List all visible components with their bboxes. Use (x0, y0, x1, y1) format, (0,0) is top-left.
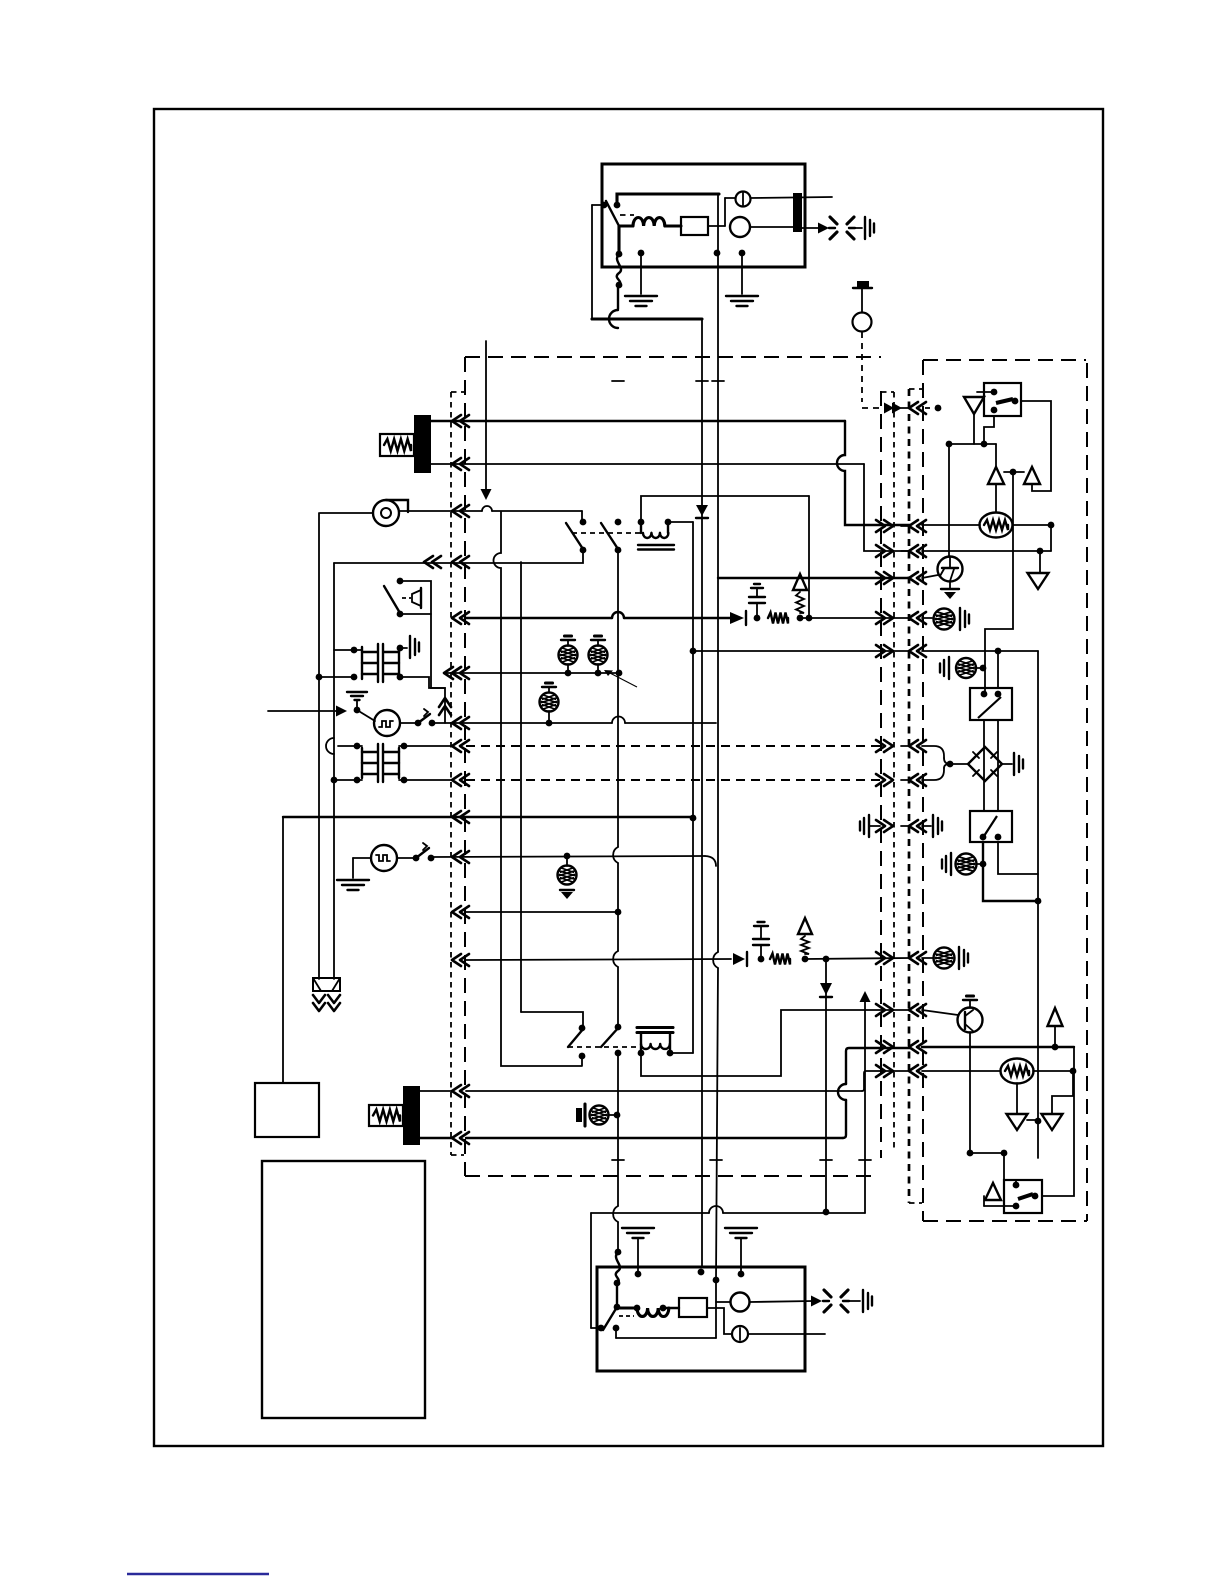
node row673 V2 (616, 670, 623, 677)
spark plug gap top (830, 217, 837, 224)
resistor box top (681, 217, 708, 235)
chevrons row912 (452, 906, 461, 918)
pulse pickup circle O1 (730, 217, 750, 237)
V717 inside box (715, 1280, 717, 1338)
relay R3 drop left (983, 842, 1038, 901)
bulb BR2 (922, 957, 933, 959)
harness dashed box top edge (465, 356, 881, 358)
chevrons row561 (452, 556, 461, 568)
bus wire 592-703 (592, 317, 702, 320)
wire switch feed left (592, 204, 604, 206)
node 805 row959 (802, 956, 809, 963)
riser 864 (864, 464, 910, 551)
controller dashed box bottom edge (923, 1220, 1087, 1222)
bulb BR0 (956, 658, 976, 678)
node 757 (754, 615, 761, 622)
chevrons row959 (452, 954, 461, 966)
wire T1 right (668, 521, 693, 523)
wire gap to ground bottom (849, 1300, 860, 1302)
chevrons row1071 (884, 1065, 893, 1077)
bus V521 (520, 562, 522, 1012)
ground M2 (337, 879, 369, 881)
ground stem G1 (640, 253, 642, 294)
chevrons row856 (452, 851, 461, 863)
wire O1 to plug (750, 226, 793, 228)
resistor row959 (770, 954, 790, 965)
triangle TU6 (985, 1183, 1001, 1200)
wire resistor to meters (708, 225, 725, 227)
battery arrow tips (313, 995, 325, 1003)
resistor block 2 box (369, 1105, 403, 1126)
indicator circle I1 (736, 192, 751, 207)
wire row959 right (805, 958, 910, 959)
top ignition unit box (602, 164, 805, 267)
bus V2 low (617, 1053, 619, 1206)
wire row618 (466, 617, 730, 619)
chevrons row1010 (884, 1004, 893, 1016)
transformer T4 (637, 1026, 673, 1029)
up chevrons x445 (439, 698, 451, 707)
arrow up x865 (864, 1002, 866, 1213)
bus V319 (318, 513, 320, 979)
diode D2 on V826 (820, 983, 832, 995)
cap C1 to ground (756, 603, 758, 618)
relay R1 out (1021, 401, 1051, 491)
relay R3 drop right (998, 842, 1038, 874)
timing connector circle (853, 313, 872, 332)
chevrons row817 (452, 811, 461, 823)
coil L2 (617, 1306, 637, 1309)
connector column fine dash x894 (893, 392, 895, 1150)
chevrons row419 (452, 415, 461, 427)
wire S1 bottom to row561 (334, 550, 583, 563)
bus V717 (717, 194, 719, 952)
bus V1038 (1037, 651, 1039, 1158)
relay R1 box (984, 383, 1021, 416)
chevrons row1138 (452, 1132, 461, 1144)
horn symbol (412, 590, 421, 606)
bulb BL5 (590, 1106, 609, 1125)
timing cap (857, 281, 869, 287)
switch S2 upper (615, 519, 622, 526)
fuse box (313, 978, 340, 991)
triangle TU5 (1024, 467, 1040, 484)
indicator circle I2 (732, 1326, 748, 1342)
controller dashed box left edge (922, 360, 924, 1221)
wire y1213 (591, 1212, 709, 1214)
triangle TU1 (793, 574, 807, 590)
resistor row618 (768, 613, 788, 624)
drop x591 (590, 1213, 592, 1328)
resistor block 2 element (373, 1110, 400, 1122)
riser 845 with hop (837, 421, 910, 525)
triangle TU4 (995, 444, 997, 467)
T2 ground right (409, 636, 411, 658)
wire T4 left loop (641, 1010, 910, 1076)
meter M2 feed (353, 857, 371, 859)
wire row673 (445, 672, 619, 674)
ground link left (868, 815, 870, 837)
drop x1013 (985, 472, 1013, 693)
relay R4 pins (1013, 1182, 1020, 1189)
row408 stub (901, 407, 909, 409)
Q2 emitter drop (969, 1032, 971, 1153)
controller dashed box right edge (1086, 363, 1088, 1221)
spark plug gap bottom (824, 1290, 831, 1297)
wire top box inner (617, 194, 719, 205)
ground BR3 (950, 853, 952, 875)
chevrons row1091 (452, 1085, 461, 1097)
transformer T3 (362, 748, 399, 778)
chevrons row510 (452, 505, 461, 517)
terminal bar 1 (414, 415, 431, 473)
wire feed S3 top (521, 1012, 583, 1027)
TH2 to TD4 (1016, 1083, 1018, 1113)
connector column long dash x881 (880, 391, 882, 1158)
transformer T1 (638, 519, 645, 526)
horn switch (397, 578, 404, 585)
meter M2 (371, 845, 397, 871)
wire bar2 row1138 (420, 1137, 452, 1139)
switch M1 (400, 722, 416, 724)
transistor Q1 (938, 557, 963, 582)
triangle TD4 (1007, 1114, 1028, 1130)
thermistor TH2 (1001, 1059, 1034, 1084)
wire resistor to I2 (707, 1308, 732, 1334)
TD4 link to V1038 (1027, 1119, 1038, 1121)
rectifier feed curves (922, 746, 944, 758)
node row1071 (1033, 1070, 1073, 1072)
wire row1091 (466, 1090, 862, 1092)
terminal bar 2 (403, 1086, 420, 1145)
wire row912 (466, 911, 616, 913)
cap C2 to ground (760, 946, 762, 959)
node 761 row959 (758, 956, 765, 963)
bulb BL2 (595, 670, 602, 677)
row408 dash to node (925, 407, 934, 409)
chevrons row618 (452, 612, 461, 624)
routing arrow down (485, 341, 487, 489)
drop 1074 to relay R4 (1042, 1047, 1074, 1196)
gang link upper (572, 532, 640, 534)
chevrons row826 (884, 820, 893, 832)
riser 809 (808, 496, 810, 618)
horn wiring (400, 581, 445, 723)
node V334 row780 (331, 777, 338, 784)
wire row419 (431, 420, 845, 422)
triangle TD5 (1042, 1114, 1063, 1130)
chevrons row551 (884, 545, 893, 557)
ground G3 (622, 1227, 654, 1229)
chevrons row464 (452, 458, 461, 470)
wire T4 right (670, 1052, 693, 1054)
wire row525 right (922, 524, 980, 526)
wire T3 stubs (338, 745, 362, 747)
meter M1 (357, 710, 375, 721)
relay R3 box (970, 811, 1012, 842)
harness dashed box left edge (464, 357, 466, 1176)
bulb BL4 (564, 853, 571, 860)
lift 864 to row1071 (862, 1071, 910, 1091)
chevrons row673 (444, 667, 453, 679)
bus V501 with hop (494, 512, 582, 1066)
HT coil bar top (793, 193, 802, 232)
switch S3 (579, 1025, 586, 1032)
wire row618 to column (800, 617, 910, 619)
wire row856 (431, 856, 705, 857)
switch S1 upper (580, 519, 587, 526)
dashed row780 (466, 779, 881, 781)
link to R4 (1004, 1153, 1016, 1185)
chevrons row618 right (884, 612, 893, 624)
gang link lower (568, 1046, 637, 1048)
harness dashed box bottom edge (465, 1175, 878, 1177)
bus V693 (692, 522, 694, 1053)
resistor block 1 box (380, 434, 414, 456)
hop V2 over bus 319 (609, 310, 618, 328)
bottom ignition unit box (597, 1267, 805, 1371)
wire gap to ground (855, 227, 862, 229)
spark plug ground bottom (862, 1290, 864, 1312)
drop x283 (282, 817, 284, 1083)
chevrons row578 (884, 572, 893, 584)
chevrons row651 (884, 645, 893, 657)
wire row578 to Q1 (922, 575, 938, 578)
bulb BR3 (956, 854, 977, 875)
chevrons row1047 (884, 1041, 893, 1053)
contact breaker switch bottom (603, 1307, 617, 1330)
node 826 row959 (823, 956, 830, 963)
wire R4 lower pin (984, 1205, 1016, 1207)
triangle ground TD3 (1028, 573, 1049, 589)
ground BR0 (948, 657, 950, 679)
resistor to triangle2 (801, 936, 809, 954)
wire row551 right (922, 550, 1051, 552)
thermistor TH1 (980, 513, 1013, 538)
transformer T2 (362, 647, 399, 679)
boundary ticks y1160 (612, 1159, 624, 1161)
node 809 row618 (806, 615, 813, 622)
wire row651 to R2 (922, 650, 1038, 652)
annotation arrow M1 (268, 710, 338, 712)
diode D1b row959 (733, 953, 745, 965)
wire O2 to plug (750, 1301, 813, 1302)
diode D1 row618 (730, 612, 744, 624)
wire row1138 (466, 1137, 843, 1139)
row408 dashed link (862, 407, 880, 409)
boundary ticks y381 (612, 380, 624, 382)
connector column fine dash x451 (450, 392, 452, 1155)
controller dashed box top edge (923, 359, 1086, 361)
T3 pins (354, 743, 361, 750)
rectifier bridge (968, 747, 1002, 781)
ground link right (922, 825, 931, 827)
diode D3 on V702 (701, 319, 703, 1267)
T2 pins bottom (351, 674, 358, 681)
wire row1010 to Q2 (922, 1010, 958, 1015)
resistor block 1 element (384, 439, 411, 451)
wire row1047 right (922, 1046, 1074, 1048)
wire y1153 (970, 1152, 1004, 1154)
wire TH1 to node (1013, 524, 1051, 526)
wire row651 (693, 650, 910, 652)
drop V826 (825, 959, 827, 1212)
relay R2 box (970, 688, 1012, 720)
timing dashed lead (861, 332, 863, 402)
wire row959 (466, 959, 731, 960)
sensor box small (255, 1083, 319, 1137)
chevrons row723 (452, 717, 461, 729)
chevrons row780 (452, 774, 461, 786)
wire row464 (431, 463, 864, 465)
ground stem G2 (741, 253, 743, 294)
wire row817 (283, 816, 693, 818)
T2 pins top (351, 647, 358, 654)
ground BL5 (576, 1108, 582, 1122)
chevrons row525 (884, 520, 893, 532)
ground BR1 (959, 608, 961, 630)
horn link dashed (402, 597, 411, 599)
wire I1 to HT lead (751, 197, 833, 198)
spark plug ground top (864, 217, 866, 239)
wire row618 tail (922, 617, 932, 619)
wire fan to column (320, 511, 582, 513)
mini ground M1 (347, 691, 367, 693)
chevrons row746 (452, 740, 461, 752)
ground G4 (725, 1227, 757, 1229)
ignition coil primary L1 (619, 218, 681, 227)
fan motor symbol (373, 500, 399, 526)
drop to TD5 (1052, 1071, 1073, 1113)
bulb BR1 (934, 609, 955, 630)
relay R1 drop (974, 414, 994, 444)
relay R2 drops (983, 720, 985, 811)
footer rule (127, 1573, 269, 1575)
relay R3 pins (980, 834, 987, 841)
Q2 cap (963, 999, 977, 1001)
wire y444 (949, 443, 996, 445)
ground bridge (1013, 753, 1015, 775)
ground Q1 (941, 588, 959, 590)
wire T1 left up (641, 496, 809, 522)
wire bar2 row1091 (420, 1090, 452, 1092)
ground G1 (625, 295, 657, 297)
wire y472 (1004, 471, 1024, 473)
transistor Q2 (958, 1008, 983, 1033)
stub to gnd triangle (1039, 551, 1041, 572)
resistor box bottom (679, 1298, 707, 1317)
row408 chevrons right (884, 403, 894, 414)
node row408 (935, 405, 942, 412)
bulb BL3 (540, 693, 559, 712)
connector column fine dash x909 (908, 389, 911, 1203)
timing stem (861, 288, 863, 312)
node 800 (797, 615, 804, 622)
bus V334 (333, 563, 335, 979)
kill switch wavy lead (617, 226, 620, 254)
collector riser x949 (948, 444, 950, 557)
pulse circle O2 (731, 1293, 750, 1312)
relay R4 box (1004, 1180, 1042, 1213)
triangle TU3 (1054, 1027, 1056, 1047)
page border frame (154, 109, 1103, 1446)
triangle TD1 (964, 397, 984, 414)
wire row1071 right (922, 1070, 1000, 1072)
node row551 (1037, 548, 1044, 555)
callout leader (608, 672, 637, 687)
ground BR2 (958, 947, 960, 969)
dashed row746 (466, 745, 881, 747)
contact breaker switch top (606, 201, 619, 226)
hop V334 row746 (326, 738, 334, 754)
switch S4 (615, 1024, 622, 1031)
kill wavy lead bottom (615, 1249, 622, 1256)
wire row578 (718, 577, 910, 579)
triangle TU2 (798, 918, 812, 934)
chevrons row959 right (884, 952, 893, 964)
lift 846 to row1047 (843, 1048, 910, 1138)
bus V2 mid (617, 550, 619, 847)
wire I2 tail (748, 1333, 825, 1335)
legend box large (262, 1161, 425, 1418)
ground G2 (726, 295, 758, 297)
dot top box v4 (714, 250, 721, 257)
wire bridge ground (950, 763, 968, 765)
wire row723 (432, 722, 612, 724)
resistor to triangle (796, 592, 804, 613)
relay R2 pins (981, 691, 988, 698)
switch M2 (397, 857, 416, 859)
relay R1 pins (991, 389, 998, 396)
bulb BL1 (565, 670, 572, 677)
